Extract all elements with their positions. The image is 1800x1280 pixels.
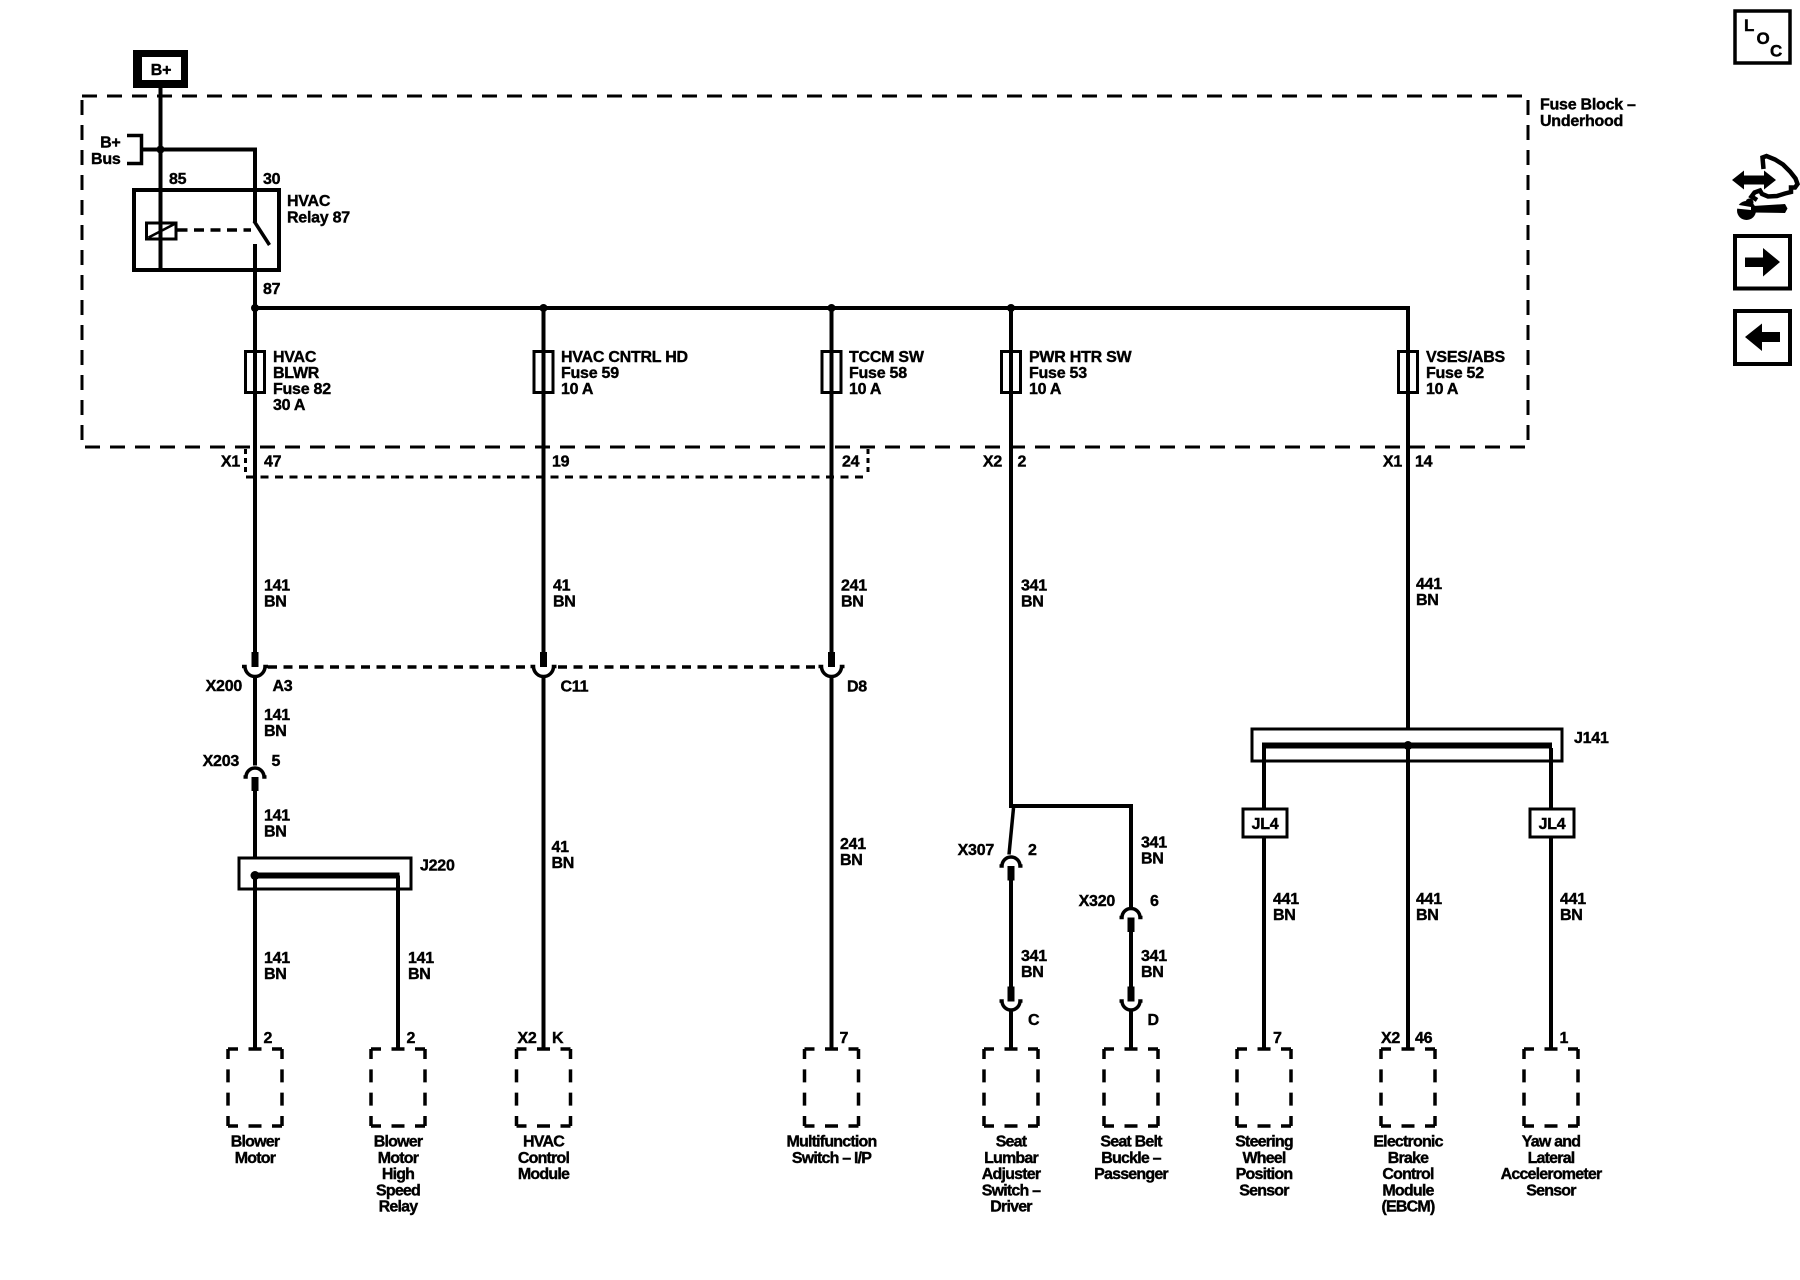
wire X320 to connector D: [1129, 932, 1133, 1001]
svg-text:BN: BN: [264, 594, 287, 611]
svg-text:141: 141: [264, 950, 290, 967]
relay switch output wire pin 87: [253, 244, 257, 308]
svg-text:Module: Module: [1382, 1182, 1434, 1199]
component box Seat Lumbar Adjuster Switch - Driver: [982, 1049, 1041, 1216]
svg-text:BN: BN: [264, 824, 287, 841]
svg-text:41: 41: [552, 839, 570, 856]
connector X200 pin A3: [206, 652, 293, 695]
wire C to seat lumbar box: [1009, 1011, 1013, 1049]
svg-text:2: 2: [407, 1030, 416, 1047]
svg-text:Adjuster: Adjuster: [982, 1166, 1041, 1183]
svg-text:Yaw and: Yaw and: [1522, 1134, 1580, 1151]
svg-text:Fuse 59: Fuse 59: [561, 365, 619, 382]
wire label 441 BN yaw: [1560, 891, 1586, 924]
svg-text:10 A: 10 A: [1029, 381, 1062, 398]
splice JL4 left: [1243, 809, 1287, 837]
svg-text:(EBCM): (EBCM): [1382, 1199, 1435, 1216]
connector C at seat lumbar switch: [1000, 987, 1041, 1030]
svg-text:Lateral: Lateral: [1528, 1150, 1575, 1167]
wire label 341 BN col D row1: [1021, 578, 1047, 611]
svg-text:441: 441: [1560, 891, 1586, 908]
svg-text:Fuse 82: Fuse 82: [273, 381, 331, 398]
icon wrench: [1736, 199, 1788, 221]
svg-text:Fuse 52: Fuse 52: [1426, 365, 1484, 382]
relay HVAC Relay 87 box: [134, 190, 279, 270]
svg-text:Control: Control: [1382, 1166, 1434, 1183]
wire label 141 BN blower col row4: [264, 950, 290, 983]
svg-text:241: 241: [840, 836, 866, 853]
svg-text:341: 341: [1141, 835, 1167, 852]
svg-text:BN: BN: [1141, 851, 1164, 868]
svg-text:Motor: Motor: [378, 1150, 419, 1167]
svg-text:Bus: Bus: [91, 151, 121, 168]
svg-text:41: 41: [553, 578, 571, 595]
svg-text:X307: X307: [958, 842, 995, 859]
fuse F82 HVAC BLWR 30A: [246, 349, 332, 414]
splice pack J141: [1252, 729, 1609, 761]
svg-text:J220: J220: [420, 858, 455, 875]
svg-text:441: 441: [1273, 891, 1299, 908]
wire fuse53 branch corner to seat belt column: [1011, 806, 1131, 908]
wire fuse53 column upper: [1009, 308, 1013, 808]
wire J220 to blower motor: [253, 878, 257, 1049]
svg-text:Buckle –: Buckle –: [1101, 1150, 1161, 1167]
svg-text:X200: X200: [206, 678, 243, 695]
svg-text:O: O: [1757, 29, 1770, 48]
wire label 341 BN seat belt lower: [1141, 948, 1167, 981]
wire label 441 BN steering: [1273, 891, 1299, 924]
wire fuse59 column upper: [542, 308, 546, 652]
wire B+ Bus to relay pin 30: [142, 150, 256, 191]
svg-text:Multifunction: Multifunction: [786, 1134, 876, 1151]
wire label 141 BN HS relay col: [408, 950, 434, 983]
svg-text:141: 141: [264, 707, 290, 724]
icon LOC reference box: [1735, 11, 1790, 63]
component box Blower Motor: [228, 1049, 282, 1167]
svg-text:Fuse 53: Fuse 53: [1029, 365, 1087, 382]
icon back arrow box: [1735, 311, 1790, 364]
svg-text:5: 5: [272, 753, 281, 770]
svg-text:341: 341: [1021, 578, 1047, 595]
svg-text:10 A: 10 A: [1426, 381, 1459, 398]
svg-text:BN: BN: [264, 723, 287, 740]
svg-text:341: 341: [1141, 948, 1167, 965]
svg-text:C11: C11: [561, 679, 589, 696]
splice JL4 right: [1530, 809, 1574, 837]
svg-text:C: C: [1028, 1012, 1040, 1029]
junction dot fuse 59 tap: [540, 304, 548, 312]
connector X1 dashed outline pins 47 19 24: [246, 449, 869, 477]
wire label 41 BN col B row2: [552, 839, 575, 872]
svg-text:19: 19: [552, 454, 570, 471]
wire B+ feed down into fuse block: [159, 88, 163, 190]
wire label 441 BN col E row1: [1416, 576, 1442, 609]
wire diagonal into X307: [1009, 808, 1014, 855]
wire fuse58 column upper: [830, 308, 834, 652]
svg-text:BN: BN: [408, 966, 431, 983]
svg-text:VSES/ABS: VSES/ABS: [1426, 349, 1505, 366]
svg-text:TCCM SW: TCCM SW: [849, 349, 925, 366]
svg-text:Blower: Blower: [374, 1134, 423, 1151]
svg-text:141: 141: [264, 578, 290, 595]
svg-text:C: C: [1770, 42, 1782, 61]
svg-text:J141: J141: [1574, 730, 1609, 747]
svg-text:Brake: Brake: [1388, 1150, 1429, 1167]
svg-text:Seat: Seat: [996, 1134, 1028, 1151]
svg-text:B+: B+: [100, 135, 120, 152]
svg-text:441: 441: [1416, 576, 1442, 593]
svg-text:Underhood: Underhood: [1540, 113, 1623, 130]
svg-text:BN: BN: [264, 966, 287, 983]
bus wire from relay output across fuse block: [253, 308, 1408, 729]
svg-text:14: 14: [1415, 454, 1433, 471]
svg-text:X1: X1: [1383, 454, 1402, 471]
wire X203 to J220: [253, 791, 257, 858]
svg-text:BN: BN: [1416, 592, 1439, 609]
svg-text:BN: BN: [553, 594, 576, 611]
svg-text:BLWR: BLWR: [273, 365, 320, 382]
junction dot at relay output: [251, 304, 259, 312]
svg-text:Blower: Blower: [231, 1134, 280, 1151]
svg-text:BN: BN: [1141, 964, 1164, 981]
component box EBCM: [1373, 1049, 1443, 1216]
connector C11: [531, 652, 589, 696]
svg-text:24: 24: [842, 454, 860, 471]
splice pack J220: [239, 858, 455, 890]
svg-text:HVAC: HVAC: [287, 193, 331, 210]
connector X307 pin 2: [958, 842, 1037, 881]
dashed harness line X200 to D8: [268, 665, 528, 669]
svg-text:BN: BN: [1560, 907, 1583, 924]
component box Blower Motor High Speed Relay: [371, 1049, 425, 1216]
svg-text:10 A: 10 A: [849, 381, 882, 398]
svg-text:Relay: Relay: [379, 1199, 419, 1216]
relay switch fixed contact from pin 30: [253, 190, 257, 222]
wire label 241 BN col C row1: [841, 578, 867, 611]
svg-text:7: 7: [840, 1030, 849, 1047]
fuse block underhood dashed boundary: [82, 96, 1528, 447]
component box Seat Belt Buckle - Passenger: [1094, 1049, 1168, 1183]
svg-text:HVAC: HVAC: [273, 349, 317, 366]
connector X320 pin 6: [1079, 893, 1159, 932]
svg-text:Steering: Steering: [1235, 1134, 1293, 1151]
svg-text:Position: Position: [1236, 1166, 1293, 1183]
svg-text:2: 2: [1028, 842, 1037, 859]
wire label 141 BN col A row1: [264, 578, 290, 611]
wire fuse52 column upper: [1406, 308, 1410, 729]
svg-text:Switch – I/P: Switch – I/P: [792, 1150, 872, 1167]
svg-text:X2: X2: [1381, 1030, 1400, 1047]
svg-text:BN: BN: [1273, 907, 1296, 924]
svg-text:Motor: Motor: [235, 1150, 276, 1167]
relay switch blade: [254, 221, 270, 245]
dashed harness line C11 to D8: [558, 665, 817, 669]
wire X200 to X203: [253, 677, 257, 766]
svg-text:JL4: JL4: [1539, 816, 1566, 833]
svg-text:85: 85: [169, 171, 187, 188]
svg-text:341: 341: [1021, 948, 1047, 965]
component box Multifunction Switch - I/P: [786, 1049, 876, 1167]
svg-text:K: K: [552, 1030, 564, 1047]
svg-text:Seat Belt: Seat Belt: [1100, 1134, 1163, 1151]
svg-text:47: 47: [264, 454, 282, 471]
svg-text:A3: A3: [273, 678, 293, 695]
pin label X2 46 ebcm: [1381, 1030, 1433, 1047]
component box Yaw and Lateral Accelerometer Sensor: [1501, 1049, 1602, 1199]
connector X203 pin 5: [203, 753, 281, 791]
svg-text:Fuse 58: Fuse 58: [849, 365, 907, 382]
svg-text:BN: BN: [1416, 907, 1439, 924]
wire label 441 BN ebcm: [1416, 891, 1442, 924]
svg-text:X320: X320: [1079, 893, 1116, 910]
svg-text:Wheel: Wheel: [1242, 1150, 1285, 1167]
relay actuation dashed link: [178, 228, 252, 232]
fuse F53 PWR HTR SW 10A: [1002, 349, 1133, 398]
svg-text:Relay 87: Relay 87: [287, 210, 350, 227]
wire label 341 BN seat lumbar: [1021, 948, 1047, 981]
wire label 341 BN seat belt upper: [1141, 835, 1167, 868]
wire label 41 BN col B row1: [553, 578, 576, 611]
svg-text:30 A: 30 A: [273, 397, 306, 414]
svg-text:PWR HTR SW: PWR HTR SW: [1029, 349, 1133, 366]
svg-text:B+: B+: [151, 62, 171, 79]
node B+ Bus bracket: [91, 135, 141, 169]
svg-text:Passenger: Passenger: [1094, 1166, 1168, 1183]
icon forward arrow box: [1735, 236, 1790, 289]
relay coil: [147, 223, 177, 239]
svg-text:Sensor: Sensor: [1239, 1182, 1289, 1199]
svg-text:30: 30: [263, 171, 281, 188]
svg-text:BN: BN: [1021, 594, 1044, 611]
svg-text:HVAC CNTRL HD: HVAC CNTRL HD: [561, 349, 688, 366]
svg-text:L: L: [1744, 16, 1754, 35]
svg-text:Speed: Speed: [376, 1182, 420, 1199]
svg-text:441: 441: [1416, 891, 1442, 908]
junction dot fuse 58 tap: [828, 304, 836, 312]
fuse F52 VSES/ABS 10A: [1399, 349, 1506, 398]
svg-text:46: 46: [1415, 1030, 1433, 1047]
svg-text:High: High: [382, 1166, 414, 1183]
svg-text:7: 7: [1273, 1030, 1282, 1047]
connector D at seat belt buckle: [1120, 987, 1159, 1030]
power symbol B+: [133, 50, 188, 88]
wire D8 to multifunction switch: [830, 677, 834, 1050]
svg-text:BN: BN: [840, 852, 863, 869]
relay coil wire pin85 through coil: [159, 190, 163, 270]
svg-text:HVAC: HVAC: [523, 1134, 565, 1151]
wire J141 left leg to JL4: [1262, 748, 1266, 809]
svg-text:Sensor: Sensor: [1526, 1182, 1576, 1199]
junction dot at B+ wire / bus wire: [157, 146, 165, 154]
svg-text:Electronic: Electronic: [1373, 1134, 1443, 1151]
label HVAC Relay 87: [287, 193, 350, 227]
svg-text:Fuse Block –: Fuse Block –: [1540, 97, 1636, 114]
junction dot fuse 53 tap: [1007, 304, 1015, 312]
svg-text:Lumbar: Lumbar: [984, 1150, 1038, 1167]
svg-text:10 A: 10 A: [561, 381, 594, 398]
svg-text:JL4: JL4: [1252, 816, 1279, 833]
svg-text:241: 241: [841, 578, 867, 595]
component box Steering Wheel Position Sensor: [1235, 1049, 1293, 1199]
svg-text:141: 141: [408, 950, 434, 967]
wire X307 to connector C: [1009, 881, 1013, 1002]
wire label 141 BN col A row2: [264, 707, 290, 740]
label Fuse Block - Underhood: [1540, 97, 1636, 131]
svg-text:Driver: Driver: [990, 1199, 1032, 1216]
wire fuse82 column upper: [253, 308, 257, 652]
svg-text:X1: X1: [221, 454, 240, 471]
fuse F59 HVAC CNTRL HD 10A: [534, 349, 688, 398]
component box HVAC Control Module: [517, 1049, 571, 1183]
svg-text:X2: X2: [518, 1030, 537, 1047]
svg-text:2: 2: [264, 1030, 273, 1047]
svg-text:6: 6: [1150, 893, 1159, 910]
wire JL4 right to yaw sensor: [1549, 837, 1553, 1049]
svg-text:141: 141: [264, 808, 290, 825]
svg-text:2: 2: [1018, 454, 1027, 471]
wire JL4 left to steering sensor: [1262, 837, 1266, 1049]
svg-text:X203: X203: [203, 753, 240, 770]
wire label 141 BN col A row3: [264, 808, 290, 841]
wire C11 to HVAC control module: [542, 677, 546, 1050]
wire label 241 BN col C row2: [840, 836, 866, 869]
svg-text:Control: Control: [518, 1150, 570, 1167]
svg-text:D8: D8: [847, 679, 867, 696]
svg-text:Accelerometer: Accelerometer: [1501, 1166, 1602, 1183]
svg-text:Module: Module: [518, 1166, 570, 1183]
wire D to seat belt box: [1129, 1011, 1133, 1049]
wire J141 center leg to EBCM: [1406, 748, 1410, 1049]
icon vehicle data with double arrow: [1732, 156, 1798, 200]
fuse F58 TCCM SW 10A: [822, 349, 925, 398]
svg-text:D: D: [1148, 1012, 1159, 1029]
svg-text:1: 1: [1560, 1030, 1569, 1047]
svg-text:BN: BN: [552, 855, 575, 872]
svg-text:Switch –: Switch –: [982, 1182, 1041, 1199]
pin label X2 K hvac control module: [518, 1030, 565, 1047]
svg-text:X2: X2: [983, 454, 1002, 471]
svg-text:BN: BN: [1021, 964, 1044, 981]
svg-text:87: 87: [263, 281, 281, 298]
svg-text:BN: BN: [841, 594, 864, 611]
wire J220 branch down to blower HS relay: [396, 876, 400, 1050]
connector D8: [819, 652, 868, 696]
wire J141 right leg to JL4: [1549, 748, 1553, 809]
